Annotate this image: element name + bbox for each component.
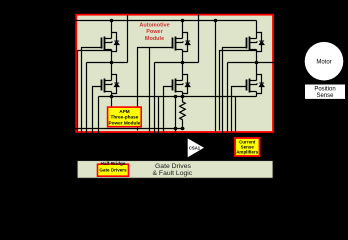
junction bus-sense — [214, 19, 218, 23]
junction R1 to ground rail — [181, 127, 185, 131]
wire positive DC bus — [73, 20, 257, 22]
wire common source rail — [99, 96, 257, 98]
wire kelvin source Q3 drop — [149, 48, 151, 135]
wire shunt sense to CSA1 — [175, 97, 177, 137]
junction CSA tap ground — [174, 127, 178, 131]
wire phase B node line — [155, 62, 199, 64]
transistor Q4 (N-MOSFET with body diode) — [173, 63, 191, 97]
Automotive Power Module enclosure box — [76, 15, 273, 132]
junction bus-Q1 — [110, 19, 114, 23]
block position sense — [305, 85, 345, 100]
wire bus sense drop — [215, 21, 217, 135]
svg-text:Gate Drivers: Gate Drivers — [99, 167, 127, 172]
wire phase C node line to motor — [228, 62, 275, 64]
transistor Q1 (N-MOSFET with body diode) — [102, 21, 120, 63]
svg-text:Motor: Motor — [316, 59, 331, 65]
wire kelvin source Q1 — [78, 51, 112, 135]
wire gate lead Q4 to driver — [164, 87, 173, 135]
wire kelvin source Q5 — [220, 51, 257, 131]
svg-text:CSA1: CSA1 — [189, 146, 201, 151]
block gate drives and fault logic — [77, 161, 273, 179]
transistor Q2 (N-MOSFET with body diode) — [102, 63, 120, 97]
wire phase C sense drop — [227, 63, 229, 135]
svg-text:Half-Bridge: Half-Bridge — [101, 161, 126, 166]
wire phase B sense drop — [154, 63, 156, 135]
svg-text:Automotive: Automotive — [139, 22, 169, 28]
wire phase A node line — [87, 62, 128, 64]
wire gate lead Q5 to driver — [223, 48, 247, 135]
svg-text:Amplifiers: Amplifiers — [236, 150, 259, 155]
wire gate lead Q6 to driver — [232, 87, 247, 135]
svg-text:Three-phase: Three-phase — [110, 115, 138, 120]
junction phase B — [181, 61, 185, 65]
label module title — [139, 22, 169, 42]
svg-text:Position: Position — [314, 87, 335, 93]
svg-text:APM: APM — [119, 109, 130, 114]
callout half-bridge gate drivers — [98, 161, 129, 176]
transistor Q6 (N-MOSFET with body diode) — [247, 63, 265, 97]
transistor Q3 (N-MOSFET with body diode) — [173, 21, 191, 63]
junction phase A — [110, 61, 114, 65]
wire gate lead Q1 to driver — [82, 48, 103, 135]
transistor Q5 (N-MOSFET with body diode) — [247, 21, 265, 63]
wire phase B to top pin — [198, 15, 200, 63]
resistor R1 current shunt — [180, 97, 186, 129]
callout current sense amplifiers — [235, 138, 260, 156]
op-amp U1 CSA1 current sense amplifier — [188, 138, 204, 157]
wire source rail drop to logic — [98, 97, 100, 135]
svg-text:& Fault Logic: & Fault Logic — [153, 170, 193, 177]
motor M1 — [305, 42, 344, 81]
junction bus-Q3 — [181, 19, 185, 23]
svg-text:Sense: Sense — [316, 93, 334, 99]
svg-text:Power: Power — [146, 29, 163, 35]
wire phase A sense drop — [86, 63, 88, 135]
junction CSA tap — [174, 95, 178, 99]
svg-text:Module: Module — [145, 36, 164, 42]
junction source Q2 — [110, 95, 114, 99]
wire source sense drop col3 — [235, 97, 237, 135]
wire source stub Q2 — [111, 97, 113, 107]
junction phase C — [255, 61, 259, 65]
wire gate lead Q3 to driver — [138, 48, 174, 131]
wire phase A to top pin — [127, 15, 129, 63]
callout APM three-phase power module — [108, 107, 142, 127]
wire gate lead Q2 to driver — [93, 87, 102, 135]
wire ground return rail — [73, 128, 185, 130]
svg-text:Gate Drives: Gate Drives — [155, 163, 191, 170]
junction source Q4 / R1 top — [181, 95, 185, 99]
wire source sense drop col2 — [158, 97, 160, 135]
svg-text:Power Module: Power Module — [109, 120, 141, 125]
